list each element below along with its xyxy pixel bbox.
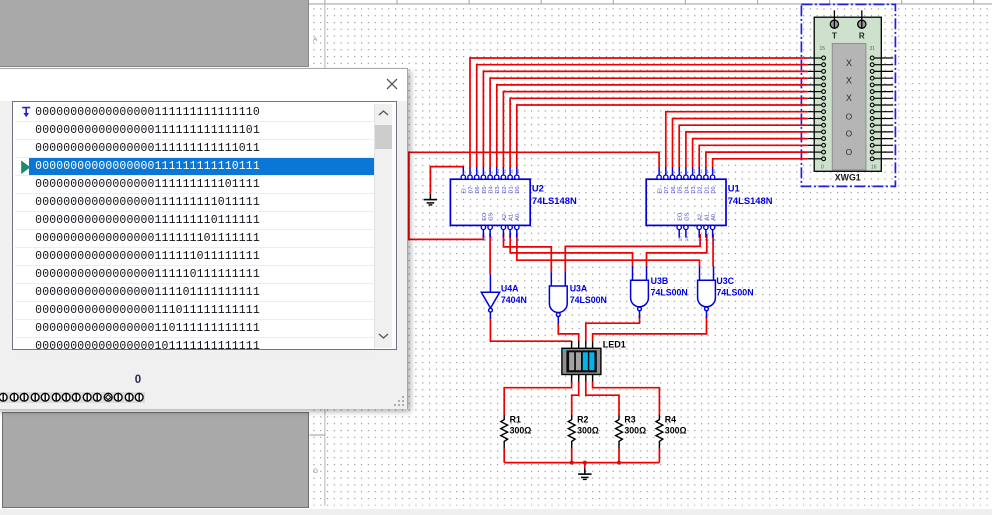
svg-text:300Ω: 300Ω: [577, 426, 599, 436]
wire R3 bottom to ground bus: [618, 448, 620, 462]
inverter U4A 7404N: [481, 274, 527, 318]
svg-text:X: X: [846, 58, 852, 68]
svg-text:R2: R2: [577, 414, 588, 424]
svg-text:D1: D1: [509, 186, 515, 193]
svg-text:D5: D5: [678, 186, 684, 193]
svg-text:R3: R3: [624, 414, 635, 424]
svg-text:R1: R1: [510, 414, 521, 424]
svg-text:A2: A2: [698, 214, 704, 221]
svg-text:11: 11: [508, 169, 513, 174]
sheet margin row divider F/G: [310, 434, 325, 436]
wire U1 A2 to U3A input B: [565, 234, 700, 272]
wire U1 D2 to XWG pin 2: [699, 145, 808, 167]
svg-text:11: 11: [704, 169, 709, 174]
svg-text:12: 12: [697, 168, 702, 173]
svg-text:U4A: U4A: [501, 283, 519, 293]
wire R4 bottom to ground bus: [658, 448, 660, 462]
resistor R2 300ohm: [568, 414, 599, 448]
svg-text:300Ω: 300Ω: [665, 426, 687, 436]
wire U2 EI to ground: [430, 167, 463, 194]
svg-text:74LS148N: 74LS148N: [728, 195, 773, 206]
svg-text:U3A: U3A: [570, 283, 588, 293]
svg-text:D5: D5: [482, 186, 488, 193]
ground symbol (below resistor bus): [578, 468, 591, 479]
sheet border ticks: [325, 0, 974, 4]
ground symbol (near U2 EI): [424, 194, 437, 205]
svg-text:D6: D6: [475, 186, 481, 193]
NAND gate U3B 74LS00N: [631, 266, 688, 317]
svg-text:14: 14: [488, 236, 493, 241]
svg-text:EI: EI: [658, 188, 664, 194]
svg-text:10: 10: [515, 168, 520, 173]
svg-text:A0: A0: [711, 214, 717, 221]
instrument XWG1 (word generator): [808, 10, 893, 182]
svg-text:U1: U1: [728, 183, 740, 194]
wire R2 bottom to ground bus: [571, 448, 573, 462]
svg-text:U2: U2: [532, 183, 544, 194]
svg-text:U3C: U3C: [716, 276, 734, 286]
svg-text:D1: D1: [704, 186, 710, 193]
NAND gate U3C 74LS00N: [698, 266, 754, 317]
dialog resize grip: [393, 395, 405, 407]
svg-text:A2: A2: [502, 214, 508, 221]
NAND gate U3A 74LS00N: [549, 272, 606, 323]
grid dots: [310, 5, 992, 506]
svg-text:300Ω: 300Ω: [510, 426, 532, 436]
svg-text:EO: EO: [482, 212, 488, 221]
pattern list box: [12, 101, 396, 350]
wire U2 D5 to XWG pin 13: [483, 71, 808, 167]
svg-text:74LS00N: 74LS00N: [570, 295, 607, 305]
svg-text:O: O: [846, 129, 853, 139]
dialog close button X: [386, 78, 398, 90]
wire U1 A0 to U3C input B: [712, 234, 714, 267]
wire U3A output to LED1 pin 2: [558, 323, 578, 342]
svg-text:15: 15: [820, 46, 826, 52]
svg-text:EO: EO: [678, 212, 684, 221]
svg-text:13: 13: [691, 168, 696, 173]
wire U2 A0 to U3C input A: [517, 234, 700, 267]
wire U4A output to LED1 pin 1: [490, 318, 571, 342]
wire U2 D1 to XWG pin 9: [510, 98, 808, 167]
ground bus wire: [504, 462, 659, 464]
gray window top-left: [0, 0, 309, 67]
wire U1 D7 to XWG pin 7: [666, 112, 808, 167]
svg-text:O: O: [846, 111, 853, 121]
wire U1 D3 to XWG pin 3: [693, 139, 808, 167]
svg-text:13: 13: [495, 168, 500, 173]
svg-text:XWG1: XWG1: [835, 173, 861, 183]
wire U2 A1 to U3B input A: [510, 234, 632, 267]
svg-text:D7: D7: [664, 186, 670, 193]
junction at ground/bus: [583, 461, 587, 465]
wire U2 D2 to XWG pin 10: [503, 92, 808, 167]
sheet row label A: [313, 37, 318, 44]
wire U1 D6 to XWG pin 6: [673, 119, 808, 168]
svg-text:U3B: U3B: [651, 276, 669, 286]
wire U2 EO to U1 EI: [409, 152, 659, 239]
wire LED1 pin1 to R1: [504, 381, 571, 415]
svg-text:74LS00N: 74LS00N: [651, 287, 688, 297]
junction at R2/bus: [570, 461, 574, 465]
svg-text:EI: EI: [462, 188, 468, 194]
wire U2 A2 to U3A input A: [504, 234, 552, 272]
wire U1 D5 to XWG pin 5: [679, 125, 808, 167]
sheet row label G: [313, 468, 318, 475]
resistor R3 300ohm: [616, 414, 647, 448]
svg-text:31: 31: [870, 46, 876, 52]
word generator output terminal icons: [0, 391, 154, 404]
wire U1 D4 to XWG pin 4: [686, 132, 808, 167]
sheet left margin line: [324, 4, 326, 506]
svg-text:15: 15: [482, 236, 487, 241]
wire U1 A1 to U3B input B: [647, 234, 707, 267]
svg-text:D2: D2: [698, 186, 704, 193]
svg-text:X: X: [846, 76, 852, 86]
svg-text:O: O: [846, 147, 853, 157]
LED bar LED1: [562, 340, 626, 382]
svg-text:14: 14: [684, 236, 689, 241]
resistor R4 300ohm: [656, 414, 687, 448]
output terminals strip label 0: [127, 374, 149, 386]
list scrollbar: [374, 104, 392, 348]
dialog title strip: [0, 69, 407, 101]
svg-text:A1: A1: [509, 214, 515, 221]
svg-text:LED1: LED1: [603, 340, 626, 350]
svg-text:D7: D7: [468, 186, 474, 193]
wire U3B output to LED1 pin 3: [586, 316, 640, 342]
svg-text:7404N: 7404N: [501, 295, 527, 305]
gray window bottom-left: [2, 412, 309, 509]
svg-text:74LS148N: 74LS148N: [532, 195, 577, 206]
sheet top border line: [309, 3, 992, 5]
wire U2 D0 to XWG pin 8: [517, 105, 808, 167]
svg-text:74LS00N: 74LS00N: [716, 287, 753, 297]
svg-text:D4: D4: [684, 186, 690, 193]
svg-text:300Ω: 300Ω: [624, 426, 646, 436]
svg-text:D4: D4: [489, 186, 495, 193]
word generator dialog window: [0, 68, 408, 409]
wire U1 D1 to XWG pin 1: [706, 152, 808, 167]
svg-text:D3: D3: [495, 186, 501, 193]
svg-text:D0: D0: [711, 186, 717, 193]
wire U2 D6 to XWG pin 14: [477, 65, 808, 167]
svg-text:R: R: [859, 32, 865, 41]
wire LED1 pin4 to R4: [593, 381, 660, 415]
svg-text:D0: D0: [515, 186, 521, 193]
svg-text:A0: A0: [515, 214, 521, 221]
wire U2 D4 to XWG pin 12: [490, 78, 808, 167]
encoder U1 74LS148N: [646, 167, 773, 241]
svg-text:T: T: [832, 32, 837, 41]
svg-text:D2: D2: [502, 186, 508, 193]
wire LED1 pin2 to R2: [572, 381, 579, 415]
svg-text:16: 16: [871, 165, 877, 171]
svg-text:A1: A1: [704, 214, 710, 221]
svg-text:12: 12: [502, 168, 507, 173]
junction at R3/bus: [617, 461, 621, 465]
wire LED1 pin3 to R3: [586, 381, 619, 415]
wire U2 D3 to XWG pin 11: [497, 85, 808, 167]
svg-text:15: 15: [677, 236, 682, 241]
wire R1 bottom to ground bus: [503, 448, 505, 462]
svg-text:10: 10: [711, 168, 716, 173]
selection dashed box around XWG1: [801, 4, 895, 186]
encoder U2 74LS148N: [450, 167, 577, 241]
svg-text:D6: D6: [671, 186, 677, 193]
wire U2 D7 to XWG pin 15: [470, 58, 808, 167]
svg-text:R4: R4: [665, 414, 676, 424]
wire U2 GS to U4A input: [489, 234, 491, 274]
svg-text:GS: GS: [489, 212, 495, 220]
resistor R1 300ohm: [501, 414, 532, 448]
wire bus to ground symbol: [584, 463, 586, 469]
wire U3C output to LED1 pin 4: [593, 316, 707, 342]
svg-text:D3: D3: [691, 186, 697, 193]
svg-text:A: A: [313, 37, 318, 44]
svg-text:X: X: [846, 93, 852, 103]
status bar: [0, 509, 992, 515]
svg-text:GS: GS: [684, 212, 690, 220]
svg-text:0: 0: [821, 165, 824, 171]
svg-text:G: G: [313, 468, 318, 475]
wire U1 D0 to XWG pin 0: [713, 159, 808, 167]
